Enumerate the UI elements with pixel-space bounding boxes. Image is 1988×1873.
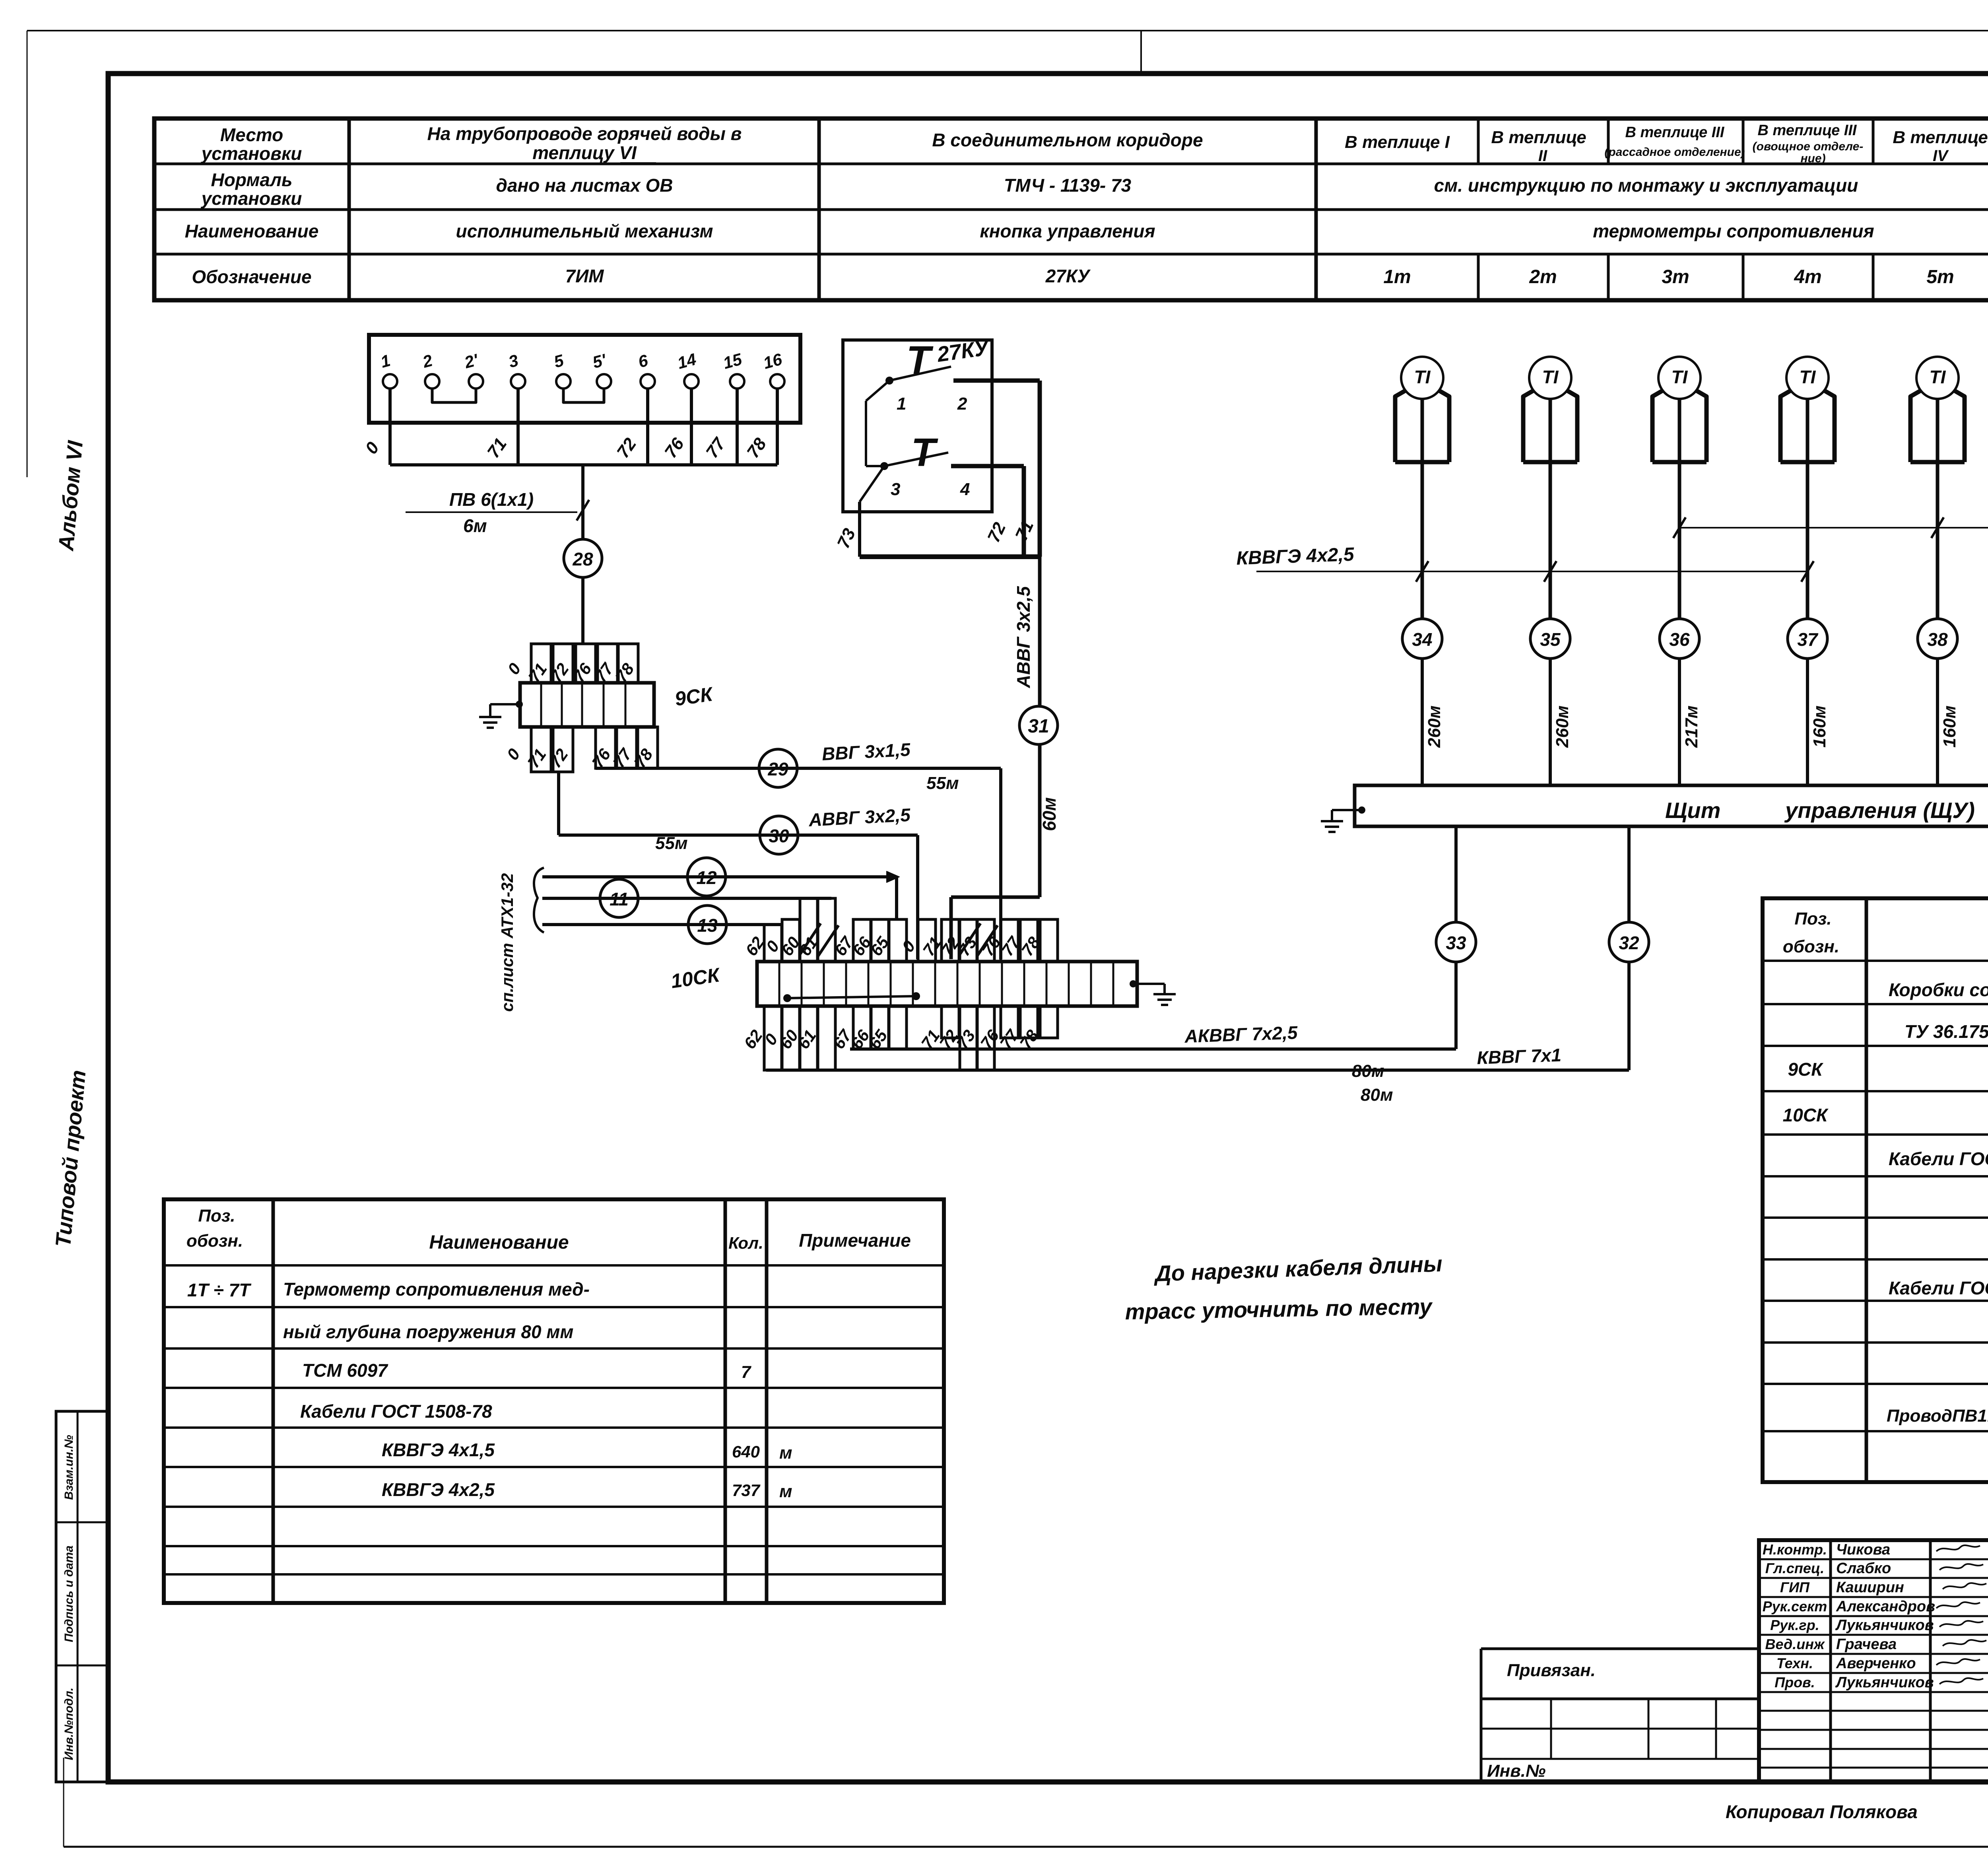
9SK top terminals	[504, 644, 638, 686]
ground at ShchU	[1321, 806, 1365, 832]
svg-text:КВВГЭ 4х2,5: КВВГЭ 4х2,5	[1236, 544, 1355, 569]
wire node 33 to ShchU	[1454, 826, 1458, 922]
bottom-left table rows	[187, 1279, 792, 1501]
svg-text:(рассадное отделение): (рассадное отделение)	[1604, 146, 1745, 159]
wire 12	[542, 871, 899, 919]
node 28 cable marker	[564, 539, 602, 577]
svg-text:КВВГЭ 4х1,5: КВВГЭ 4х1,5	[382, 1440, 495, 1460]
sheet outer border left line	[27, 31, 64, 1847]
svg-text:Лукьянчиков: Лукьянчиков	[1835, 1674, 1934, 1691]
svg-text:Н.контр.: Н.контр.	[1763, 1541, 1827, 1558]
cable label PV 6(1x1) 6m with leader	[406, 489, 589, 536]
thermometer T1 sensor	[1395, 357, 1449, 462]
svg-text:80м: 80м	[1361, 1085, 1393, 1105]
control button box 27KU	[843, 340, 992, 512]
svg-text:12: 12	[696, 867, 717, 888]
svg-text:Александров: Александров	[1836, 1598, 1935, 1615]
svg-text:7: 7	[741, 1362, 752, 1382]
svg-text:Кол.: Кол.	[728, 1234, 763, 1252]
svg-text:Чикова: Чикова	[1836, 1541, 1890, 1558]
svg-text:Техн.: Техн.	[1776, 1655, 1813, 1671]
jumper between terminals 2 and 2'	[432, 389, 476, 402]
svg-text:5т: 5т	[1926, 266, 1954, 288]
svg-text:10СК: 10СК	[1783, 1105, 1829, 1125]
wire from contact 4 label 72	[951, 466, 1024, 557]
node 36 cable marker	[1660, 619, 1699, 659]
svg-text:Гл.спец.: Гл.спец.	[1765, 1560, 1824, 1576]
wire thermometer 5 down	[1936, 399, 1939, 619]
note sp.list ATX1-32 vertical	[498, 873, 516, 1012]
svg-text:35: 35	[1540, 629, 1561, 650]
wire from node 28 to 9SK	[581, 577, 584, 644]
signature rows text	[1763, 1541, 1988, 1691]
svg-text:34: 34	[1412, 629, 1432, 650]
svg-text:сп.лист АТХ1-32: сп.лист АТХ1-32	[498, 873, 516, 1012]
svg-text:160м: 160м	[1940, 705, 1959, 748]
node 33 cable marker	[1436, 922, 1476, 962]
svg-text:Вед.инж: Вед.инж	[1765, 1636, 1825, 1652]
node 38 cable marker	[1918, 619, 1957, 659]
pushbutton symbol upper	[906, 338, 934, 383]
svg-text:Кабели ГОСТ 1508- 78: Кабели ГОСТ 1508- 78	[1889, 1278, 1988, 1298]
svg-text:60м: 60м	[1039, 797, 1060, 831]
svg-text:160м: 160м	[1810, 705, 1829, 748]
svg-text:4т: 4т	[1794, 266, 1821, 288]
jumper link inside 10SK	[783, 992, 920, 1002]
ground at 10SK	[1130, 980, 1176, 1005]
switch blade 3-4	[884, 453, 948, 466]
crossing marks on terminals 72 73	[960, 923, 998, 956]
right table rows	[1783, 979, 1988, 1428]
control panel ShchU box	[1355, 785, 1988, 826]
svg-text:260м: 260м	[1425, 705, 1444, 748]
svg-text:Щит: Щит	[1665, 798, 1720, 823]
label 60m	[1039, 797, 1060, 831]
svg-text:36: 36	[1669, 629, 1690, 650]
svg-text:ПВ 6(1х1): ПВ 6(1х1)	[449, 489, 534, 510]
crossing marks on terminals 60 61	[800, 923, 839, 956]
label AVVG3x2.5 55m	[655, 804, 911, 853]
cable KVVGE 4x2.5 line	[1236, 544, 1814, 582]
svg-text:Аверченко: Аверченко	[1836, 1655, 1916, 1672]
right specification table grid	[1763, 898, 1988, 1482]
node 31 cable marker	[1019, 706, 1058, 744]
node 30 cable marker	[760, 816, 798, 854]
svg-text:27КУ: 27КУ	[1045, 266, 1091, 286]
svg-text:В теплице III: В теплице III	[1625, 124, 1725, 141]
wire node30 corner down to 10SK	[916, 835, 919, 959]
cable KVVG 7x1 wire	[766, 962, 1629, 1070]
svg-text:ТI: ТI	[1414, 367, 1431, 387]
ground at 9SK	[479, 701, 523, 728]
svg-text:кнопка управления: кнопка управления	[980, 221, 1155, 241]
junction box 9SK body	[520, 683, 654, 727]
svg-text:В теплице III: В теплице III	[1758, 122, 1857, 139]
10SK top terminals	[742, 898, 1058, 962]
svg-text:1Т ÷ 7Т: 1Т ÷ 7Т	[187, 1280, 252, 1300]
bottom-left table header	[186, 1206, 911, 1253]
svg-text:В теплице I: В теплице I	[1345, 132, 1450, 152]
button contact 4	[960, 480, 970, 499]
9SK bottom terminals	[503, 727, 658, 772]
svg-text:32: 32	[1619, 933, 1639, 953]
svg-text:28: 28	[572, 549, 593, 569]
node 34 cable marker	[1402, 619, 1442, 659]
button contact 1	[885, 377, 906, 414]
svg-text:2т: 2т	[1529, 266, 1557, 288]
wire node 35 to ShchU with length 260м	[1550, 659, 1572, 785]
svg-text:ТI: ТI	[1930, 367, 1946, 387]
right table header	[1783, 909, 1988, 956]
svg-text:теплицу VI: теплицу VI	[532, 142, 637, 163]
svg-text:В теплице: В теплице	[1893, 128, 1988, 147]
svg-text:(овощное отделе-: (овощное отделе-	[1753, 140, 1864, 153]
svg-text:м: м	[779, 1482, 792, 1501]
svg-text:ние): ние)	[1800, 152, 1825, 165]
switch blade 1-2	[889, 367, 951, 381]
svg-text:Т: Т	[911, 430, 938, 475]
svg-text:Примечание: Примечание	[799, 1230, 911, 1251]
svg-text:4: 4	[960, 480, 970, 499]
svg-text:Лукьянчиков: Лукьянчиков	[1835, 1617, 1934, 1634]
svg-text:см. инструкцию по монтажу: см. инструкцию по монтажу и эксплуатации	[1434, 175, 1858, 196]
node 13 cable marker	[688, 905, 726, 944]
svg-text:3: 3	[891, 480, 900, 499]
svg-text:Кабели ГОСТ 1508-78: Кабели ГОСТ 1508-78	[300, 1401, 492, 1422]
svg-text:IV: IV	[1933, 147, 1949, 165]
wire 9SK to node 29	[596, 767, 1001, 770]
svg-text:ТСМ 6097: ТСМ 6097	[302, 1360, 388, 1381]
button contact 2	[957, 394, 967, 414]
svg-text:Поз.: Поз.	[1794, 909, 1831, 929]
wire thermometer 2 down	[1549, 399, 1552, 619]
wire common 73 inside 27KU	[860, 381, 889, 557]
wire node29 corner down to 10SK	[999, 768, 1002, 959]
svg-text:КВВГ 7х1: КВВГ 7х1	[1477, 1045, 1562, 1068]
svg-text:Место: Место	[220, 124, 283, 145]
node 37 cable marker	[1788, 619, 1827, 659]
wire 9SK to node 30	[559, 772, 918, 835]
node 32 cable marker	[1609, 922, 1649, 962]
svg-text:обозн.: обозн.	[1783, 937, 1839, 956]
jumper between terminals 5 and 5'	[563, 389, 604, 402]
svg-text:Рук.сект: Рук.сект	[1763, 1598, 1827, 1615]
svg-text:260м: 260м	[1553, 705, 1572, 748]
svg-text:установки: установки	[201, 143, 302, 164]
top table grid	[154, 119, 1988, 300]
wire node 37 to ShchU with length 160м	[1807, 659, 1829, 785]
thermometer T2 sensor	[1523, 357, 1577, 462]
wire node 34 to ShchU with length 260м	[1422, 659, 1444, 785]
svg-text:Подпись и дата: Подпись и дата	[62, 1545, 76, 1642]
wire node 32 to ShchU	[1627, 826, 1631, 922]
svg-text:ПроводПВ1.1 380/660 ГОСТ 6323: ПроводПВ1.1 380/660 ГОСТ 6323- 79	[1887, 1406, 1988, 1426]
label 27KU	[935, 336, 991, 367]
label KVVG 7x1 80m	[1361, 1045, 1562, 1105]
label 10SK	[670, 964, 722, 993]
svg-text:55м: 55м	[926, 773, 959, 793]
svg-text:АВВГ 3х2,5: АВВГ 3х2,5	[1013, 586, 1034, 688]
wire down from 27KU to node 31	[1038, 557, 1042, 706]
svg-text:ГИП: ГИП	[1780, 1579, 1810, 1595]
cable AKVVG 7x2.5 wire	[850, 962, 1456, 1049]
svg-text:55м: 55м	[655, 834, 688, 853]
cable AVVG 3x2.5 vertical label	[1013, 586, 1034, 688]
left margin cell Podpis i data	[62, 1545, 76, 1642]
wire from node 31 to 10SK	[951, 744, 1040, 959]
svg-text:29: 29	[767, 759, 788, 779]
left margin label Tipovoy proekt	[51, 1069, 91, 1248]
svg-text:Нормаль: Нормаль	[211, 169, 293, 190]
top table row headers	[185, 124, 319, 287]
wire from contact 2 label 71	[953, 381, 1040, 557]
svg-text:В теплице: В теплице	[1491, 128, 1586, 147]
svg-text:Кабели ГОСТ 16442-80: Кабели ГОСТ 16442-80	[1889, 1148, 1988, 1169]
svg-text:Копировал Полякова: Копировал Полякова	[1726, 1801, 1918, 1822]
svg-text:ТМЧ - 1139- 73: ТМЧ - 1139- 73	[1004, 175, 1132, 196]
bus below 27KU	[860, 554, 1040, 559]
svg-text:Термометр сопротивления мед-: Термометр сопротивления мед-	[283, 1279, 590, 1300]
svg-text:АКВВГ 7х2,5: АКВВГ 7х2,5	[1184, 1022, 1299, 1047]
svg-text:11: 11	[610, 889, 629, 909]
wire 13	[542, 923, 781, 926]
node 35 cable marker	[1530, 619, 1570, 659]
left margin cell Inv.N podl	[62, 1688, 76, 1760]
svg-text:1т: 1т	[1383, 266, 1411, 288]
svg-text:Инв.№: Инв.№	[1487, 1761, 1545, 1781]
svg-text:ТI: ТI	[1672, 367, 1688, 387]
top table column 27KU	[932, 130, 1203, 286]
wire 11	[542, 897, 831, 900]
svg-text:Коробки соединительные: Коробки соединительные	[1889, 979, 1988, 1000]
top table greenhouse columns	[1345, 122, 1988, 288]
label AKVVG 7x2.5 80m	[1184, 1022, 1384, 1081]
svg-text:33: 33	[1446, 933, 1466, 953]
svg-text:установки: установки	[201, 188, 302, 209]
svg-text:Рук.гр.: Рук.гр.	[1770, 1617, 1819, 1633]
top table column 7IM	[427, 123, 742, 286]
svg-text:3т: 3т	[1662, 266, 1689, 288]
wire thermometer 4 down	[1806, 399, 1809, 619]
svg-text:В соединительном коридоре: В соединительном коридоре	[932, 130, 1203, 150]
left margin stamp table	[56, 1411, 108, 1782]
thermometer T4 sensor	[1780, 357, 1835, 462]
svg-text:управления (ЩУ): управления (ЩУ)	[1784, 798, 1975, 823]
node 29 cable marker	[759, 749, 797, 787]
note about cable lengths	[1125, 1251, 1443, 1324]
title block frame	[1759, 1540, 1988, 1782]
svg-text:Привязан.: Привязан.	[1507, 1661, 1596, 1680]
svg-text:ный глубина погружения 80: ный глубина погружения 80 мм	[283, 1321, 573, 1342]
wire node 36 to ShchU with length 217м	[1679, 659, 1701, 785]
svg-text:Поз.: Поз.	[198, 1206, 235, 1226]
svg-text:термометры сопротивления: термометры сопротивления	[1593, 221, 1874, 241]
svg-text:исполнительный механизм: исполнительный механизм	[456, 221, 713, 241]
thermometer T3 sensor	[1652, 357, 1706, 462]
thermometer T5 sensor	[1910, 357, 1965, 462]
svg-text:Наименование: Наименование	[185, 221, 319, 241]
bottom-left specification table grid	[164, 1199, 944, 1603]
button contact 3	[880, 462, 900, 499]
svg-text:Наименование: Наименование	[429, 1232, 569, 1253]
svg-text:ТI: ТI	[1542, 367, 1559, 387]
svg-text:дано на листах ОВ: дано на листах ОВ	[496, 175, 673, 196]
wire labels 0 71 72 76 77 78 on 7IM bus	[361, 434, 770, 462]
svg-text:13: 13	[697, 915, 718, 936]
left margin cell Vzam.inv.N	[62, 1435, 76, 1500]
svg-text:КВВГЭ 4х2,5: КВВГЭ 4х2,5	[382, 1479, 495, 1500]
left margin label Album VI	[54, 439, 87, 552]
terminal circles of 7IM box	[379, 350, 784, 389]
wire drop from bus to node 28	[581, 465, 584, 539]
svg-text:30: 30	[769, 826, 789, 846]
copied by line	[1726, 1801, 1988, 1831]
wires from 7IM terminals to cable bus	[390, 389, 777, 465]
wire thermometer 1 down	[1421, 399, 1424, 619]
svg-text:Каширин: Каширин	[1836, 1579, 1904, 1596]
wire labels 73 72 71 below 27KU	[833, 517, 1037, 551]
svg-text:6м: 6м	[463, 515, 487, 536]
label Shchit upravleniya	[1665, 798, 1975, 823]
junction box 10SK body	[757, 962, 1137, 1006]
node 12 cable marker	[687, 858, 726, 896]
svg-text:7ИМ: 7ИМ	[565, 266, 605, 286]
terminal box 7IM	[369, 335, 800, 423]
svg-text:Обозначение: Обозначение	[192, 266, 311, 287]
wire thermometer 3 down	[1678, 399, 1681, 619]
svg-text:Грачева: Грачева	[1836, 1636, 1897, 1653]
sheet outer border top line	[27, 30, 1988, 31]
svg-text:Взам.ин.№: Взам.ин.№	[62, 1435, 76, 1500]
svg-text:Пров.: Пров.	[1774, 1674, 1815, 1690]
svg-text:31: 31	[1028, 716, 1049, 737]
svg-text:37: 37	[1797, 629, 1819, 650]
svg-text:9СК: 9СК	[1788, 1059, 1823, 1080]
svg-text:обозн.: обозн.	[186, 1231, 243, 1251]
fold mark top center	[1140, 31, 1142, 74]
svg-text:м: м	[779, 1443, 792, 1463]
svg-text:737: 737	[732, 1481, 761, 1500]
svg-text:Слабко: Слабко	[1836, 1560, 1891, 1577]
svg-text:II: II	[1538, 147, 1547, 165]
10SK bottom terminals	[740, 1006, 1058, 1070]
svg-text:ТI: ТI	[1800, 367, 1816, 387]
label 9SK	[674, 683, 715, 710]
svg-text:1: 1	[897, 394, 906, 414]
wire node 38 to ShchU with length 160м	[1938, 659, 1959, 785]
sheet outer border bottom line	[64, 1846, 1988, 1848]
privyazan box	[1481, 1649, 1759, 1782]
svg-text:640: 640	[732, 1442, 760, 1461]
node 11 cable marker	[600, 879, 638, 917]
svg-text:217м: 217м	[1682, 705, 1701, 748]
svg-text:Инв.№подл.: Инв.№подл.	[62, 1688, 76, 1760]
svg-text:На трубопроводе горячей воды: На трубопроводе горячей воды в	[427, 123, 742, 144]
brace for ATX lines	[534, 868, 544, 933]
svg-text:ТУ 36.1753 -75: ТУ 36.1753 -75	[1905, 1021, 1988, 1042]
label VVG3x1.5 55m	[821, 739, 959, 793]
svg-text:2: 2	[957, 394, 967, 414]
cable KVVGE 4x1.5 line	[1673, 499, 1988, 538]
pushbutton symbol lower	[911, 430, 938, 475]
svg-text:38: 38	[1927, 629, 1948, 650]
